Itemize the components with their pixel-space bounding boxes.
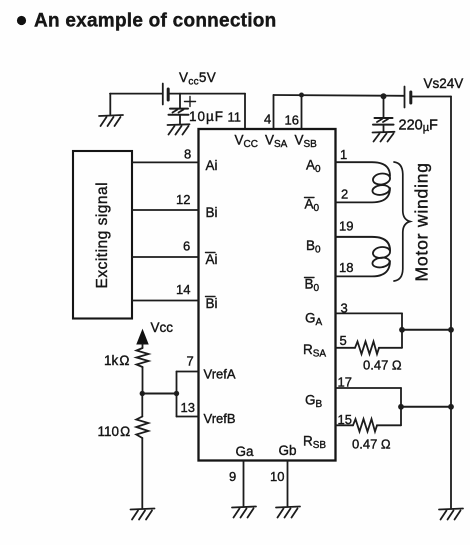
- ground below Gb: [276, 507, 300, 518]
- ground below Ga: [232, 507, 256, 518]
- svg-text:Motor winding: Motor winding: [412, 162, 432, 281]
- wire Ai-bar: [132, 256, 199, 258]
- junction dot pin16 top: [299, 93, 304, 98]
- svg-text:16: 16: [285, 113, 299, 128]
- svg-text:13: 13: [181, 400, 195, 415]
- svg-text:GA: GA: [305, 311, 323, 329]
- wire resistor R4 to junction: [377, 424, 401, 426]
- battery BT1 Vcc5V cell: [163, 84, 168, 105]
- svg-text:220µF: 220µF: [399, 118, 439, 135]
- svg-text:18: 18: [339, 260, 353, 275]
- plus sign of C1: [185, 97, 196, 107]
- winding L1 loop a: [372, 172, 391, 185]
- svg-text:8: 8: [184, 147, 191, 162]
- IC label Bi-bar: [206, 296, 218, 311]
- wire GB down to RSB: [400, 388, 402, 425]
- svg-text:Ai: Ai: [206, 158, 218, 173]
- wire tap to capacitor C1: [179, 94, 181, 108]
- ground bottom right: [439, 509, 463, 520]
- svg-text:2: 2: [341, 187, 348, 202]
- svg-text:Exciting signal: Exciting signal: [94, 182, 111, 289]
- wire VrefA stub: [177, 371, 199, 373]
- svg-text:Ga: Ga: [236, 444, 255, 459]
- ground bottom left: [131, 509, 155, 520]
- junction dot GB/RSB: [398, 404, 404, 410]
- svg-text:Bi: Bi: [206, 205, 218, 220]
- exciting signal box: [73, 151, 132, 319]
- wire winding L2 to B0-bar: [336, 261, 391, 276]
- IC label Ai-bar: [206, 252, 218, 267]
- svg-text:VrefA: VrefA: [204, 367, 236, 382]
- IC label A0-bar: [305, 197, 320, 215]
- wire junction down to R2: [141, 394, 143, 417]
- wire resistor R3 to junction: [379, 347, 402, 349]
- svg-text:Vs24V: Vs24V: [424, 76, 464, 91]
- winding L2 loop b: [372, 257, 390, 269]
- svg-text:A0: A0: [305, 197, 320, 215]
- wire junction to vref link: [142, 393, 176, 395]
- ground G1: [99, 115, 123, 126]
- wire B0 to winding L2: [336, 237, 391, 251]
- wire Vcc5V rail: [110, 93, 162, 95]
- svg-text:RSA: RSA: [303, 342, 326, 360]
- junction dot right rail (B): [448, 404, 454, 410]
- svg-text:1: 1: [340, 147, 347, 162]
- wire Gb to ground: [287, 461, 289, 507]
- wire GA down to RSA: [401, 313, 403, 347]
- winding L2 loop a: [372, 246, 391, 259]
- wire VrefB stub: [177, 416, 199, 418]
- svg-text:Vcc: Vcc: [151, 320, 174, 335]
- svg-text:10: 10: [270, 469, 284, 484]
- svg-text:14: 14: [176, 282, 190, 297]
- svg-text:19: 19: [339, 219, 353, 234]
- svg-text:Bi: Bi: [206, 296, 218, 311]
- wire down to ground G1: [109, 94, 111, 115]
- wire GB right: [336, 387, 402, 389]
- resistor R4 0.47 ohm: [353, 419, 377, 432]
- svg-text:4: 4: [264, 112, 271, 127]
- wire right vertical rail: [450, 97, 452, 509]
- svg-text:VSB: VSB: [295, 133, 318, 151]
- wire Ga to ground: [243, 461, 245, 507]
- wire pin 16 stub (VSB): [301, 95, 303, 129]
- svg-text:5: 5: [340, 333, 347, 348]
- junction dot GA/RSA: [399, 327, 405, 333]
- svg-text:GB: GB: [305, 393, 323, 411]
- winding L1 loop b: [372, 184, 390, 196]
- wire Vs rail: [274, 94, 405, 97]
- svg-text:0.47 Ω: 0.47 Ω: [352, 437, 391, 452]
- wire R2 to ground: [141, 438, 143, 508]
- svg-text:7: 7: [187, 354, 194, 369]
- battery BT2 Vs24V cell: [405, 87, 411, 108]
- svg-text:11: 11: [228, 110, 242, 125]
- Vcc arrow supply: [137, 330, 148, 348]
- svg-text:10µF: 10µF: [189, 109, 224, 124]
- wire battery to right rail: [411, 96, 451, 98]
- svg-text:B0: B0: [306, 238, 321, 256]
- wire GA right: [336, 312, 403, 314]
- wire tap to capacitor C2: [383, 96, 385, 117]
- ground below C1: [168, 124, 190, 134]
- svg-text:VrefB: VrefB: [204, 411, 236, 426]
- wire RSA to resistor: [336, 347, 356, 349]
- svg-text:110 Ω: 110 Ω: [98, 424, 131, 439]
- svg-text:RSB: RSB: [303, 434, 326, 452]
- IC label B0-bar: [305, 277, 320, 295]
- wire A0 to winding L1: [336, 162, 391, 176]
- wire vref vertical link: [176, 372, 178, 417]
- capacitor C2 220uF polarized: [373, 118, 394, 132]
- wire Bi-bar: [132, 300, 199, 302]
- resistor R2 110 ohm: [136, 417, 148, 439]
- capacitor C1 10uF polarized: [169, 109, 189, 124]
- resistor R3 0.47 ohm: [355, 342, 379, 355]
- junction dot vref link: [174, 391, 179, 396]
- resistor R1 1k: [137, 348, 149, 367]
- svg-text:9: 9: [229, 469, 236, 484]
- wire Vcc5V rail right of battery: [169, 93, 245, 95]
- svg-text:Gb: Gb: [279, 443, 297, 458]
- motor winding brace: [394, 162, 410, 281]
- svg-text:VCC: VCC: [235, 133, 258, 151]
- svg-text:A0: A0: [306, 158, 321, 176]
- svg-text:1k Ω: 1k Ω: [104, 353, 129, 368]
- svg-text:0.47 Ω: 0.47 Ω: [363, 358, 402, 373]
- IC U1 body: [199, 129, 336, 461]
- svg-text:12: 12: [176, 192, 190, 207]
- svg-text:An example of connection: An example of connection: [34, 11, 276, 32]
- junction dot vref divider: [140, 391, 145, 396]
- svg-text:B0: B0: [305, 277, 320, 295]
- wire winding L1 to A0-bar: [336, 188, 391, 202]
- wire pin 4 stub (VSA): [273, 95, 275, 129]
- wire pin 11 stub (VCC): [244, 94, 246, 129]
- wire Ai: [132, 161, 199, 163]
- wire RSB to resistor: [336, 424, 354, 426]
- svg-text:VSA: VSA: [265, 133, 288, 151]
- svg-text:Ai: Ai: [206, 252, 218, 267]
- wire junction to right rail (A): [402, 329, 451, 331]
- svg-text:Vcc5V: Vcc5V: [179, 70, 216, 88]
- junction dot 220uF tap: [381, 93, 387, 99]
- wire junction to right rail (B): [401, 406, 451, 408]
- ground below C2: [373, 132, 395, 142]
- junction dot right rail (A): [448, 327, 454, 333]
- wire Bi: [132, 209, 199, 211]
- svg-text:6: 6: [183, 239, 190, 254]
- title bullet: [17, 16, 26, 25]
- wire R1 to junction: [142, 367, 144, 394]
